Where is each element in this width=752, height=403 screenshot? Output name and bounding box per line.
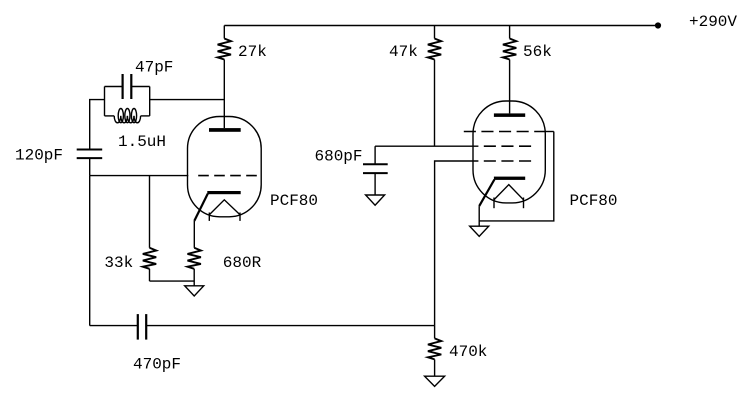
svg-text:470pF: 470pF (133, 356, 181, 374)
wire: 680pF node to V2 grid 2 (375, 145, 478, 147)
tube V2 anode plate (494, 113, 525, 117)
svg-text:680R: 680R (223, 254, 262, 272)
svg-text:120pF: 120pF (15, 147, 63, 165)
tube V2 heater (494, 185, 524, 209)
tube V1 cathode (194, 191, 240, 221)
resistor 470k (428, 326, 441, 377)
ground (below 470k) (425, 376, 445, 386)
ground (below 680pF) (366, 195, 385, 205)
svg-text:47k: 47k (389, 43, 418, 61)
wire: V2 grid 3 to coupling column (435, 161, 479, 326)
svg-text:470k: 470k (449, 343, 487, 361)
wire: 33k bottom to 680R bottom (150, 280, 195, 282)
svg-text:1.5uH: 1.5uH (118, 133, 166, 151)
wire: tank right tap to anode node (150, 99, 225, 101)
svg-text:PCF80: PCF80 (570, 192, 618, 210)
resistor 56k (503, 26, 516, 114)
wire: bottom coupling wire to 470k node (146, 325, 434, 327)
tube V2 grid 2 (dashed) (484, 145, 531, 147)
tube V1 envelope (PCF80 triode) (188, 117, 262, 217)
svg-text:+290V: +290V (689, 13, 737, 31)
resistor 33k (143, 248, 156, 281)
wire: V1 cathode to 680R (193, 221, 195, 248)
inductor L 1.5uH (105, 109, 150, 123)
svg-text:27k: 27k (238, 43, 267, 61)
svg-text:680pF: 680pF (315, 148, 363, 166)
resistor 680R (188, 248, 201, 286)
wire: left column down to coupling cap (89, 176, 91, 326)
tube V1 grid (dashed) (198, 175, 257, 177)
node: supply terminal dot (655, 22, 661, 28)
tube V2 cathode (479, 177, 525, 227)
wire: V2 grid1-to-cathode feedback box (479, 132, 554, 221)
tube V1 anode plate (209, 128, 241, 132)
tube V1 heater (209, 200, 240, 221)
tube V2 grid 3 (dashed) (484, 160, 531, 162)
capacitor 120pF (77, 150, 103, 176)
capacitor C 47pF (105, 74, 150, 99)
resistor 47k (428, 26, 441, 147)
svg-text:33k: 33k (104, 254, 133, 272)
ground (V2 cathode) (470, 226, 489, 236)
resistor 27k (218, 26, 231, 129)
wire: +290V supply rail (224, 25, 658, 27)
capacitor 470pF (90, 314, 147, 340)
wire: junction down to 33k (149, 176, 151, 248)
wire: grid wire to tube V1 (90, 175, 189, 177)
tube V2 envelope (PCF80 pentode) (473, 101, 545, 203)
svg-text:PCF80: PCF80 (270, 192, 318, 210)
tank circuit frame (LC parallel) (105, 87, 150, 116)
capacitor 680pF (363, 146, 388, 195)
svg-text:47pF: 47pF (135, 59, 173, 77)
tube V2 grid 1 (dashed, to right box) (464, 131, 554, 133)
wire: tank left tap to 120pF node (90, 100, 105, 150)
ground (below 680R) (185, 286, 204, 296)
svg-text:56k: 56k (523, 43, 552, 61)
